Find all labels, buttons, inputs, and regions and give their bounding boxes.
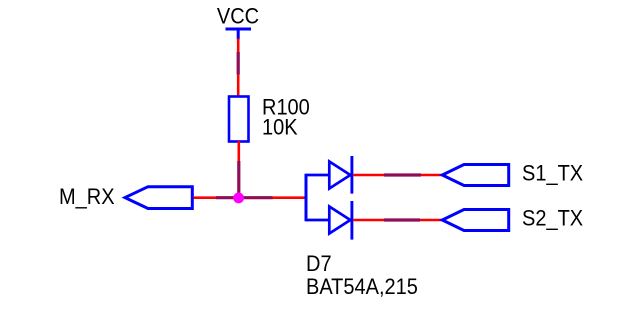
- diode D7 top triangle: [329, 162, 350, 189]
- svg-text:BAT54A,215: BAT54A,215: [306, 275, 418, 299]
- resistor R100 body: [229, 97, 249, 142]
- svg-text:S2_TX: S2_TX: [522, 207, 583, 231]
- diode D7 top anode pin: [306, 174, 329, 177]
- svg-text:D7: D7: [306, 252, 332, 276]
- wire top diode to S1_TX purple: [384, 173, 421, 176]
- wire VCC to resistor red lower: [237, 75, 240, 98]
- wire top diode to S1_TX red left: [353, 174, 384, 177]
- port M_RX shape: [125, 187, 192, 209]
- wire junction purple left-right: [216, 196, 273, 199]
- svg-text:S1_TX: S1_TX: [522, 162, 583, 186]
- wire top diode to S1_TX red right: [421, 174, 443, 177]
- diode D7 bottom anode pin: [306, 219, 329, 222]
- wire VCC to resistor purple middle: [237, 52, 240, 75]
- svg-text:10K: 10K: [262, 116, 298, 140]
- port S1_TX shape: [442, 165, 508, 186]
- port S2_TX shape: [442, 210, 508, 231]
- diode D7 bottom triangle: [329, 207, 350, 234]
- wire VCC to resistor red upper: [237, 39, 240, 53]
- wire bottom diode to S2_TX red left: [353, 219, 384, 222]
- power symbol VCC bar: [226, 28, 252, 31]
- svg-text:VCC: VCC: [217, 5, 259, 29]
- power symbol VCC stem: [237, 29, 240, 40]
- diode D7 top cathode bar: [350, 156, 353, 194]
- wire bottom diode to S2_TX red right: [420, 219, 443, 222]
- diode D7 common anode bar: [305, 174, 308, 222]
- diode D7 bottom cathode bar: [350, 201, 353, 240]
- wire junction to diode red: [273, 196, 307, 199]
- wire M_RX to junction red: [194, 196, 218, 199]
- wire resistor to junction purple: [237, 161, 240, 198]
- svg-text:M_RX: M_RX: [59, 185, 115, 209]
- wire bottom diode to S2_TX purple: [384, 218, 420, 221]
- junction node dot: [233, 193, 244, 204]
- wire resistor to junction red: [238, 141, 241, 161]
